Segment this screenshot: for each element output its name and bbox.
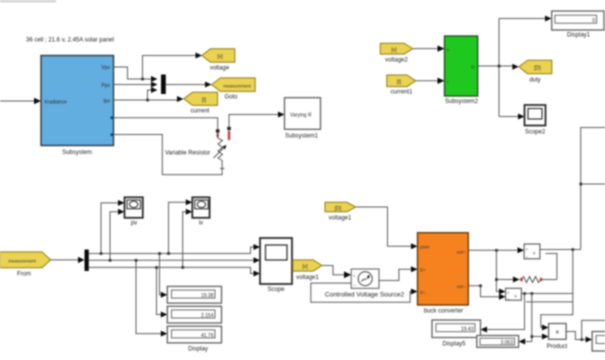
- from voltage1 lower: [293, 260, 322, 281]
- wire: out+ tap down to voltage measurement2: [496, 250, 505, 294]
- svg-text:[D]: [D]: [335, 206, 342, 212]
- mux: [161, 75, 166, 95]
- svg-text:buck converter: buck converter: [424, 309, 463, 315]
- svg-text:2.154: 2.154: [201, 313, 214, 319]
- display Ipv value: [167, 306, 221, 323]
- wire: product output to display7: [566, 332, 592, 343]
- svg-text:41.76: 41.76: [201, 333, 214, 339]
- scope: [260, 238, 292, 293]
- wire: mux to measurement goto: [166, 82, 212, 88]
- svg-text:Scope2: Scope2: [525, 130, 546, 136]
- wire: from to demux: [51, 257, 85, 263]
- svg-text:current1: current1: [390, 90, 413, 96]
- svg-text:−: −: [507, 296, 510, 301]
- wire: tap to pv in1: [100, 200, 125, 255]
- svg-text:From: From: [17, 272, 31, 278]
- goto measurement: [212, 78, 256, 101]
- svg-text:[I]: [I]: [397, 79, 402, 85]
- wire: Ppv to mux in2: [114, 82, 158, 88]
- goto voltage: [202, 49, 235, 72]
- wire: vm2 output row: [521, 292, 572, 295]
- svg-text:Product: Product: [547, 344, 568, 350]
- svg-text:0: 0: [592, 18, 595, 24]
- svg-text:voltage1: voltage1: [296, 275, 319, 281]
- wire: voltage1 to controlled voltage source: [322, 266, 351, 279]
- wire: out+ to voltage measurement1: [468, 247, 524, 253]
- wire: demux out1 trunk: [89, 244, 260, 254]
- display1: [552, 11, 604, 39]
- svg-text:D+: D+: [420, 268, 426, 273]
- display Ppv value: [167, 326, 221, 352]
- svg-text:measurement: measurement: [8, 259, 36, 264]
- wire: tap to display6 (right to left): [519, 294, 532, 345]
- wire: tap down to display C: [135, 259, 168, 337]
- goto duty: [519, 60, 552, 83]
- wire: cvs return loop to buck D-: [311, 283, 418, 302]
- wire: Vpv to mux in1 and voltage goto: [114, 53, 203, 83]
- svg-text:Subsystem2: Subsystem2: [445, 99, 479, 105]
- wire: loop vm1 to resistor right: [546, 254, 557, 280]
- svg-text:+: +: [507, 290, 510, 295]
- svg-text:Subsystem1: Subsystem1: [285, 134, 319, 140]
- product: [547, 324, 568, 351]
- variable resistor: [165, 127, 231, 169]
- svg-text:Variable Resistor: Variable Resistor: [165, 151, 210, 157]
- wire: product in2 feed: [531, 334, 549, 340]
- svg-text:out+: out+: [457, 249, 466, 254]
- wire: cvs output to buck D+: [382, 266, 418, 280]
- wire: resistor R port to Subsystem1: [229, 112, 285, 127]
- wire: tap down to display B: [155, 266, 167, 317]
- display7 (clipped at right edge): [592, 332, 605, 352]
- svg-text:duty: duty: [529, 78, 540, 84]
- svg-text:voltage1: voltage1: [329, 216, 352, 222]
- wire: Ipv to mux in3 and current goto: [114, 87, 184, 102]
- wire: down trunk from vm1 row: [541, 250, 573, 331]
- svg-text:Controlled Voltage Source2: Controlled Voltage Source2: [325, 292, 405, 299]
- svg-text:[v]: [v]: [217, 54, 223, 60]
- svg-text:pv: pv: [131, 221, 137, 227]
- wire: top-right feed down to product row: [582, 320, 605, 339]
- wire: tap to iv in2: [181, 209, 192, 269]
- wire: vm1 output to right trunk: [540, 248, 581, 251]
- svg-text:[I]: [I]: [202, 98, 207, 104]
- wire: Irradiance input from left edge: [0, 98, 41, 104]
- svg-text:[v]: [v]: [302, 264, 308, 270]
- svg-text:[D]: [D]: [534, 66, 541, 72]
- wire: out- to voltage measurement2: [468, 284, 505, 299]
- svg-text:Subsystem: Subsystem: [62, 150, 92, 156]
- svg-text:19.38: 19.38: [201, 293, 214, 299]
- wire: second row below vm2: [526, 301, 573, 303]
- from measurement: [0, 252, 51, 278]
- svg-text:Display: Display: [188, 347, 208, 353]
- wire: tap down to display A: [158, 252, 167, 298]
- demux: [85, 250, 89, 272]
- wire: tap to display5 (right to left): [481, 294, 525, 333]
- scope2: [525, 105, 546, 136]
- wire: right trunk vertical with taps to edge: [579, 128, 605, 250]
- wire: PV +terminal to variable resistor left terminal: [114, 118, 218, 130]
- subsystem (PV panel, blue): [41, 56, 114, 157]
- svg-text:Varying R: Varying R: [290, 113, 312, 119]
- from current1: [387, 75, 416, 96]
- from voltage2: [380, 43, 412, 63]
- wire: tap to pv in2: [109, 209, 125, 262]
- wire: subsystem2 D fanout to display1, duty, scope2: [478, 16, 552, 120]
- wire: tap to load resistor: [495, 277, 519, 283]
- svg-text:out−: out−: [457, 284, 466, 289]
- svg-text:iv: iv: [199, 221, 203, 227]
- svg-text:Ipv: Ipv: [103, 99, 110, 105]
- svg-text:Goto: Goto: [224, 95, 238, 101]
- svg-text:Irradiance: Irradiance: [45, 100, 67, 106]
- subsystem1 (Varying R): [285, 98, 321, 140]
- svg-text:Scope: Scope: [267, 287, 285, 293]
- display Vpv value: [167, 286, 221, 303]
- wire: current1 to subsystem2: [416, 78, 445, 84]
- wire: demux out3 trunk: [89, 267, 260, 276]
- svg-text:[v]: [v]: [391, 47, 397, 53]
- svg-text:+: +: [526, 247, 529, 252]
- svg-text:36 cell ; 21.6 v, 2.45A solar: 36 cell ; 21.6 v, 2.45A solar panel: [26, 38, 114, 44]
- svg-text:−: −: [526, 255, 529, 260]
- svg-text:pwm: pwm: [420, 245, 430, 250]
- voltage measurement2: [506, 288, 522, 301]
- wire: PV -terminal loop to resistor bottom: [114, 135, 223, 175]
- wire: tap to iv in1: [167, 199, 192, 255]
- window artifact streak top-left: [0, 0, 56, 3]
- pv XY graph: [125, 197, 143, 226]
- svg-text:×: ×: [555, 329, 559, 336]
- svg-text:Display5: Display5: [442, 342, 466, 348]
- controlled voltage source: [325, 269, 405, 299]
- svg-text:19.43: 19.43: [461, 327, 474, 333]
- from duty/voltage1 upper: [325, 202, 356, 221]
- wire: voltage2 to subsystem2: [413, 45, 445, 51]
- load resistor: [520, 277, 557, 283]
- svg-text:voltage: voltage: [210, 66, 230, 72]
- iv XY graph: [192, 197, 209, 226]
- buck converter (orange): [418, 233, 469, 315]
- wire: demux out2 trunk: [89, 257, 260, 263]
- voltage measurement1: [524, 244, 540, 260]
- wire: to buck pwm: [356, 207, 418, 249]
- svg-text:+: +: [353, 274, 356, 279]
- svg-text:−: −: [354, 283, 357, 288]
- display6: [477, 336, 519, 348]
- svg-text:voltage2: voltage2: [385, 58, 408, 64]
- svg-text:D−: D−: [420, 290, 426, 295]
- svg-text:measurement: measurement: [223, 83, 251, 88]
- svg-text:Display1: Display1: [567, 33, 591, 39]
- svg-text:3.063: 3.063: [500, 340, 513, 346]
- svg-text:i: i: [447, 79, 448, 84]
- subsystem2 (MPPT, green): [445, 36, 479, 105]
- display5: [432, 320, 481, 348]
- svg-text:current: current: [191, 109, 210, 115]
- goto current: [184, 92, 218, 114]
- svg-text:Vpv: Vpv: [101, 65, 110, 71]
- svg-text:Ppv: Ppv: [101, 83, 110, 89]
